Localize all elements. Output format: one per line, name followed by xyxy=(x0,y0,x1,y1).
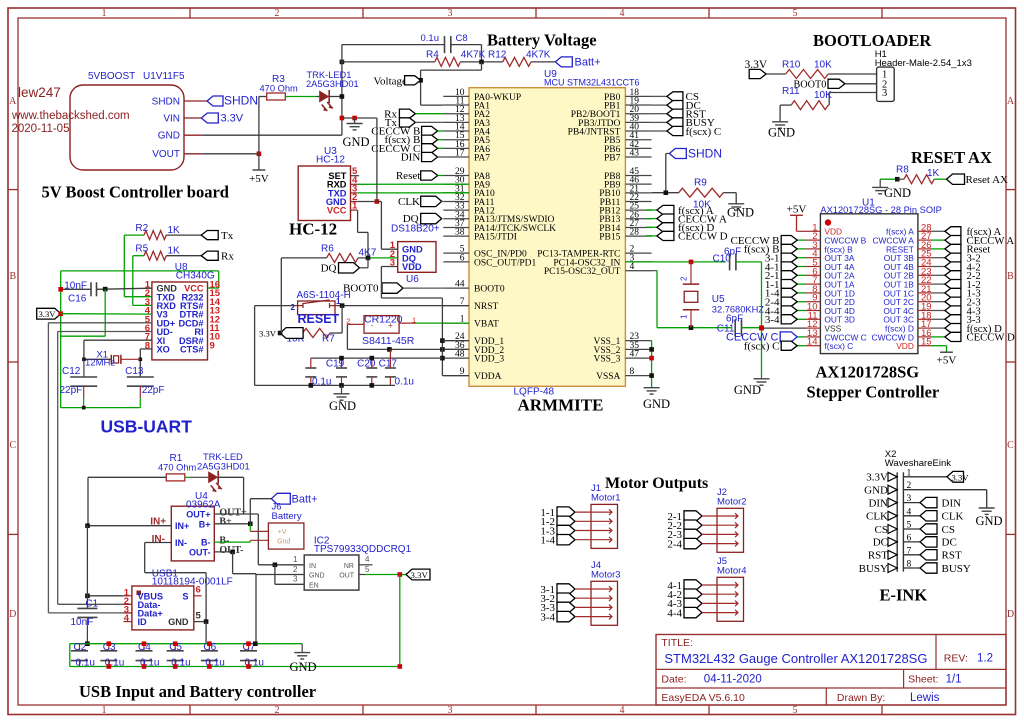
svg-text:C2: C2 xyxy=(74,642,87,653)
svg-text:VBAT: VBAT xyxy=(474,320,499,330)
svg-text:Rx: Rx xyxy=(221,251,234,263)
svg-text:R4: R4 xyxy=(426,50,439,61)
svg-text:BOOTLOADER: BOOTLOADER xyxy=(813,31,932,50)
svg-text:3.3V: 3.3V xyxy=(411,570,429,580)
svg-text:Motor2: Motor2 xyxy=(717,496,747,507)
wire 3-3 to J4 xyxy=(575,606,605,608)
svg-text:5VBOOST: 5VBOOST xyxy=(88,71,135,82)
power flag 3.3V at IC2 xyxy=(406,569,430,580)
junction caps top xyxy=(339,356,344,361)
wire gnd drop xyxy=(104,289,106,336)
svg-text:4: 4 xyxy=(365,555,370,564)
svg-text:RST: RST xyxy=(942,550,962,562)
wire XO to crystal xyxy=(140,348,152,350)
svg-text:1.2: 1.2 xyxy=(977,653,993,665)
net flag CLK eink xyxy=(903,515,920,517)
junction DQ node xyxy=(366,256,371,261)
junction R8 xyxy=(895,177,900,182)
wire PC15 to crystal bottom xyxy=(625,270,657,272)
wire Batt+ riser xyxy=(249,499,251,524)
svg-text:Date:: Date: xyxy=(661,673,686,685)
wire 2-3 to J2 xyxy=(702,533,731,535)
svg-text:lew247: lew247 xyxy=(18,85,61,100)
net flag 3-2 at U1 right xyxy=(932,257,945,259)
junction VBUS xyxy=(85,594,90,599)
wire caps bottom rail xyxy=(70,666,400,668)
net flag 1-1 at U1 xyxy=(797,283,806,285)
svg-text:0.1u: 0.1u xyxy=(395,376,414,387)
wire 2-1 to J2 xyxy=(702,515,731,517)
wire HC-12 VCC xyxy=(351,209,358,211)
junction rail misc xyxy=(253,641,258,646)
capacitor C15 0.1u xyxy=(305,367,316,369)
svg-text:IN+: IN+ xyxy=(175,521,189,531)
capacitor C8 0.1u xyxy=(444,36,446,53)
svg-text:CLK: CLK xyxy=(866,511,888,523)
ground symbol mid caps xyxy=(341,385,343,393)
svg-text:0.1u: 0.1u xyxy=(76,657,95,668)
wire battery divider rail xyxy=(342,61,435,63)
pin stub HC-12 SET xyxy=(351,175,360,177)
wire R6 right to DQ pin xyxy=(358,257,368,259)
svg-text:RESET AX: RESET AX xyxy=(911,148,992,167)
svg-text:BUSY: BUSY xyxy=(942,563,971,575)
svg-text:3-4: 3-4 xyxy=(540,611,555,623)
svg-text:470 Ohm: 470 Ohm xyxy=(158,463,196,473)
net flag Batt+ at J6 xyxy=(271,493,290,504)
svg-text:R5: R5 xyxy=(135,244,148,255)
svg-text:CECCW D: CECCW D xyxy=(967,332,1015,344)
junction HC-12 GND xyxy=(375,199,380,204)
resistor R6 4K7 xyxy=(327,253,359,262)
svg-text:VIN: VIN xyxy=(163,113,180,124)
svg-text:4: 4 xyxy=(124,613,130,624)
svg-text:Motor1: Motor1 xyxy=(591,492,621,503)
junction R7 3.3V xyxy=(278,331,283,336)
svg-text:4K7K: 4K7K xyxy=(526,50,551,61)
power flag 3.3V eink xyxy=(947,471,964,482)
pin stub VIN xyxy=(184,117,201,119)
ground symbol reset ax xyxy=(872,186,888,188)
svg-text:5: 5 xyxy=(793,705,798,716)
svg-text:DIN: DIN xyxy=(401,152,421,164)
resistor R11 10K xyxy=(791,101,828,110)
wire 1-4 to J1 xyxy=(575,539,605,541)
wire R4 to junction xyxy=(460,61,502,63)
wire 1-2 to J1 xyxy=(575,520,605,522)
wire VSS rail xyxy=(651,341,653,388)
svg-text:C16: C16 xyxy=(68,294,87,305)
svg-text:DS18B20+: DS18B20+ xyxy=(391,224,440,235)
junction LED-GND vertical top xyxy=(340,60,345,65)
wire caps top rail xyxy=(70,643,302,645)
svg-text:Tx: Tx xyxy=(221,230,234,242)
svg-text:470 Ohm: 470 Ohm xyxy=(260,84,298,94)
net flag 4-2 at U1 right xyxy=(932,266,945,268)
svg-text:4K7K: 4K7K xyxy=(461,50,486,61)
svg-text:10K: 10K xyxy=(814,60,832,71)
wire VDD_1 branch xyxy=(442,340,469,342)
wire DS18B20 VDD xyxy=(381,266,397,268)
svg-text:Lewis: Lewis xyxy=(910,692,940,704)
crystal U5 32.7680KHZ xyxy=(690,262,692,284)
net flag 2-3 at U1 right xyxy=(932,301,945,303)
capacitor C3 0.1u xyxy=(108,644,110,651)
svg-text:NRST: NRST xyxy=(474,302,498,312)
svg-text:1K: 1K xyxy=(168,225,181,236)
junction VDD_2 rail xyxy=(387,347,392,352)
svg-text:R8: R8 xyxy=(896,165,909,176)
svg-text:WaveshareEink: WaveshareEink xyxy=(885,458,951,469)
net flag Tx at R2 xyxy=(201,231,218,240)
svg-text:REV:: REV: xyxy=(944,653,968,665)
svg-text:1K: 1K xyxy=(927,168,940,179)
net flag Reset at U1 right xyxy=(932,248,945,250)
net flag 3-1 at U1 xyxy=(797,257,806,259)
junction caps ground xyxy=(309,383,314,388)
svg-text:48: 48 xyxy=(455,350,465,360)
svg-text:DIN: DIN xyxy=(942,497,962,509)
net flag CS at MCU xyxy=(652,95,667,97)
net flag SHDN xyxy=(207,96,223,106)
svg-text:VDD: VDD xyxy=(896,341,914,351)
svg-text:SHDN: SHDN xyxy=(688,146,722,160)
svg-text:+: + xyxy=(388,321,393,330)
svg-text:CS: CS xyxy=(942,524,955,536)
resistor R2 1K xyxy=(144,231,166,240)
svg-text:U5: U5 xyxy=(712,294,725,305)
power symbol +5V at U1 pin15 xyxy=(940,351,953,353)
svg-text:C13: C13 xyxy=(125,366,144,377)
svg-text:5: 5 xyxy=(793,8,798,19)
wire U1 pin15 VDD to +5V xyxy=(932,345,947,347)
wire VOUT to +5V xyxy=(184,153,201,155)
svg-text:CTS#: CTS# xyxy=(180,345,204,355)
wire +5V riser xyxy=(258,97,260,171)
svg-text:VDD: VDD xyxy=(402,262,422,272)
svg-text:B: B xyxy=(1007,271,1014,282)
svg-text:5: 5 xyxy=(196,611,202,622)
svg-text:Battery: Battery xyxy=(272,511,302,522)
svg-text:OUT: OUT xyxy=(339,573,355,580)
wire SHDN to PB10 xyxy=(666,153,670,155)
wire 4-1 to J5 xyxy=(702,584,731,586)
svg-text:GND: GND xyxy=(329,399,356,413)
wire caps rail left xyxy=(69,644,71,667)
ground symbol caps rail xyxy=(301,644,303,653)
wire R11 left to GND xyxy=(780,104,791,106)
wire U1 VSS to crystal ground xyxy=(762,327,807,329)
wire 4-3 to J5 xyxy=(702,602,731,604)
junction CH340 gnd node xyxy=(103,287,108,292)
svg-text:-: - xyxy=(371,321,374,330)
pin stub IC2 NR xyxy=(359,564,373,566)
svg-text:CECCW D: CECCW D xyxy=(678,231,728,243)
wire GND drop to DS18B20 xyxy=(376,118,378,202)
svg-text:6pF: 6pF xyxy=(724,247,741,258)
wire 3.3V to R10 xyxy=(766,73,786,75)
svg-text:VDD_3: VDD_3 xyxy=(474,355,504,365)
junction LED node xyxy=(340,94,345,99)
wire R1 left xyxy=(88,476,166,478)
wire R5 to Rx flag xyxy=(166,255,201,257)
wire IN- to ground loop xyxy=(144,543,146,573)
net flag CECCW A at U1 right xyxy=(932,239,945,241)
capacitor C7 0.1u xyxy=(248,644,250,651)
svg-text:+5V: +5V xyxy=(249,173,269,185)
wire R2 to Tx flag xyxy=(166,234,201,236)
wire LED to OUT+ xyxy=(218,476,243,478)
wire OUT- to ground rail xyxy=(232,552,234,574)
wire R2 to TXD xyxy=(124,234,144,236)
wire 2-2 to J2 xyxy=(702,524,731,526)
resistor R7 10K xyxy=(289,329,330,338)
U1 left pins xyxy=(806,222,867,351)
svg-text:SHDN: SHDN xyxy=(224,94,258,108)
svg-text:DC: DC xyxy=(942,537,957,549)
svg-text:+5V: +5V xyxy=(787,204,807,216)
pin stub SHDN xyxy=(184,100,207,102)
wire 1-1 to J1 xyxy=(575,511,605,513)
svg-text:OSC_OUT/PD1: OSC_OUT/PD1 xyxy=(474,258,537,268)
svg-text:2: 2 xyxy=(291,303,296,312)
wire Rx to PA2 xyxy=(415,113,443,115)
wire R9 to GND xyxy=(723,192,736,194)
svg-text:EasyEDA V5.6.10: EasyEDA V5.6.10 xyxy=(661,692,745,704)
svg-text:A: A xyxy=(9,96,17,107)
ground symbol VSS xyxy=(644,387,660,389)
wire reset pullup riser xyxy=(341,306,343,333)
net flag 3-3 at U1 right xyxy=(932,318,945,320)
svg-text:1: 1 xyxy=(102,8,107,19)
svg-text:B-: B- xyxy=(201,538,211,548)
svg-text:3.3V: 3.3V xyxy=(39,309,57,319)
svg-text:ID: ID xyxy=(138,617,148,627)
svg-text:OUT-: OUT- xyxy=(189,547,211,557)
capacitor C4 0.1u xyxy=(143,644,145,651)
svg-text:3: 3 xyxy=(448,705,453,716)
MCU U9 STM32L431CCT6 body xyxy=(469,88,625,387)
wire reset ax gnd xyxy=(880,178,897,180)
wire R5 to RXD xyxy=(133,255,144,257)
svg-text:Motor4: Motor4 xyxy=(717,565,747,576)
IC U1 AX1201728SG body xyxy=(820,214,918,354)
wire crystal ground rail xyxy=(61,407,141,409)
svg-text:2: 2 xyxy=(275,8,280,19)
svg-text:Battery Voltage: Battery Voltage xyxy=(487,31,597,50)
svg-text:4-4: 4-4 xyxy=(667,607,682,619)
net flag CS eink xyxy=(903,528,920,530)
svg-text:6: 6 xyxy=(196,585,201,596)
svg-text:6: 6 xyxy=(460,253,465,263)
svg-text:VOUT: VOUT xyxy=(152,149,180,160)
svg-text:B+: B+ xyxy=(219,516,232,527)
junction IC2 IN EN xyxy=(273,563,278,568)
junction GND symbol node xyxy=(352,116,357,121)
wire 4-4 to J5 xyxy=(702,612,731,614)
svg-text:28: 28 xyxy=(630,228,640,238)
net flag f(scx) C at U1 xyxy=(797,345,806,347)
resistor R8 1K xyxy=(897,178,904,180)
svg-text:PB7: PB7 xyxy=(604,153,621,163)
svg-text:R9: R9 xyxy=(694,178,707,189)
junction GND node xyxy=(340,116,345,121)
net flag CECCW B at U1 xyxy=(797,239,806,241)
ground symbol at R9 xyxy=(728,203,744,205)
net flag RST eink xyxy=(903,554,920,556)
svg-text:C: C xyxy=(1007,440,1014,451)
net flag Rx at R5 xyxy=(201,251,218,260)
wire reset switch pin2 to ground rail xyxy=(255,305,295,307)
wire 3-2 to J4 xyxy=(575,597,605,599)
svg-text:5V Boost Controller board: 5V Boost Controller board xyxy=(42,183,229,202)
svg-text:R2: R2 xyxy=(135,223,148,234)
junction c12 gnd xyxy=(82,406,86,410)
svg-text:4: 4 xyxy=(620,8,625,19)
svg-text:GND: GND xyxy=(168,617,189,627)
junction VDD_1 xyxy=(440,338,445,343)
wire VBUS riser xyxy=(86,526,88,596)
net flag 3.3V on VIN xyxy=(201,113,218,123)
junction USB gnd xyxy=(204,619,209,624)
wire 2-4 to J2 xyxy=(702,543,731,545)
wire R3 to LED xyxy=(285,96,316,98)
net flag 1-2 at U1 right xyxy=(932,283,945,285)
net flag BUSY at MCU xyxy=(652,121,667,123)
svg-text:PC15-OSC32_OUT: PC15-OSC32_OUT xyxy=(544,267,621,277)
junction XO crystal xyxy=(139,358,143,362)
svg-text:RESET: RESET xyxy=(298,312,340,326)
svg-text:DQ: DQ xyxy=(321,262,337,274)
net flag CECCW D at U1 right xyxy=(932,336,945,338)
wire 3.3V rail top xyxy=(61,270,219,272)
svg-text:2A5G3HD01: 2A5G3HD01 xyxy=(197,462,250,472)
svg-text:CS: CS xyxy=(875,524,888,536)
wire C16 right to CH340 GND xyxy=(97,288,152,289)
wire GND vertical xyxy=(341,45,343,136)
svg-text:U6: U6 xyxy=(406,274,419,285)
svg-text:22pF: 22pF xyxy=(142,385,165,396)
svg-text:Drawn By:: Drawn By: xyxy=(837,692,885,704)
resistor R9 10K xyxy=(679,188,724,197)
svg-text:R10: R10 xyxy=(782,60,801,71)
svg-text:PA15/JTDI: PA15/JTDI xyxy=(474,233,517,243)
svg-text:B: B xyxy=(9,271,16,282)
svg-text:3.3V: 3.3V xyxy=(866,472,888,484)
svg-text:C8: C8 xyxy=(456,33,468,44)
wire XI down to C12 xyxy=(83,359,85,377)
svg-text:B+: B+ xyxy=(199,519,211,529)
capacitor C2 0.1u xyxy=(79,644,81,651)
junction 3.3V V3 xyxy=(58,311,63,316)
svg-text:1: 1 xyxy=(680,314,689,319)
wire UD+ to USB xyxy=(48,322,151,324)
wire R10 to header pin1 xyxy=(828,73,876,75)
wire HC-12 GND xyxy=(351,201,358,203)
svg-text:0.1u: 0.1u xyxy=(421,33,440,44)
svg-text:f(scx) C: f(scx) C xyxy=(686,126,722,138)
svg-text:CLK: CLK xyxy=(398,196,420,208)
svg-text:MCU STM32L431CCT6: MCU STM32L431CCT6 xyxy=(544,78,640,88)
ground symbol bootloader xyxy=(772,121,788,123)
wire B+ to J6 xyxy=(249,524,251,532)
svg-text:GND: GND xyxy=(643,397,670,411)
junction NRST node xyxy=(340,303,345,308)
resistor R3 470 Ohm xyxy=(259,96,267,98)
svg-text:D: D xyxy=(1007,609,1014,620)
svg-text:USB Input and Battery controll: USB Input and Battery controller xyxy=(79,682,316,701)
wire 3-4 to J4 xyxy=(575,616,605,618)
svg-text:PB15: PB15 xyxy=(599,233,620,243)
net flag 3-4 at U1 xyxy=(797,318,806,320)
svg-text:47: 47 xyxy=(630,350,640,360)
junction VSS3 xyxy=(649,356,654,361)
svg-text:14: 14 xyxy=(807,337,818,348)
svg-text:3-4: 3-4 xyxy=(765,314,780,326)
wire R7 right xyxy=(330,332,342,334)
junction battery sense node xyxy=(479,60,484,65)
wire 3.3V down to bottom rail xyxy=(399,575,401,667)
svg-text:2A5G3HD01: 2A5G3HD01 xyxy=(306,79,359,89)
svg-text:DC: DC xyxy=(873,537,888,549)
svg-text:8: 8 xyxy=(630,367,635,377)
net flag 2-4 at U1 xyxy=(797,301,806,303)
ground symbol crystal xyxy=(754,378,770,380)
svg-text:2: 2 xyxy=(275,705,280,716)
wire 3-1 to J4 xyxy=(575,588,605,590)
svg-text:DIN: DIN xyxy=(868,497,888,509)
wire R12 to Batt+ xyxy=(531,61,555,63)
wire IC2 GND xyxy=(256,574,304,576)
svg-text:USB-UART: USB-UART xyxy=(101,417,193,437)
svg-text:+5V: +5V xyxy=(937,355,957,367)
svg-text:Sheet:: Sheet: xyxy=(908,673,938,685)
svg-text:1-4: 1-4 xyxy=(540,535,555,547)
wire R11 right to header pin3 xyxy=(827,104,830,106)
svg-text:PA7: PA7 xyxy=(474,153,490,163)
wire V3 xyxy=(61,313,152,315)
net flag 4-3 at U1 right xyxy=(932,310,945,312)
wire 1-3 to J1 xyxy=(575,530,605,532)
svg-text:f(scx) C: f(scx) C xyxy=(824,341,853,351)
svg-text:TRK-LED: TRK-LED xyxy=(203,452,243,462)
junction 3.3V out xyxy=(398,572,403,577)
svg-text:IN: IN xyxy=(309,563,316,570)
net flag DC eink xyxy=(903,541,920,543)
net flag Reset AX xyxy=(947,174,965,184)
svg-text:U1V11F5: U1V11F5 xyxy=(143,71,185,82)
junction VDD_3 xyxy=(440,356,445,361)
junction B+ Batt+ xyxy=(248,522,253,527)
wire GND from 5VBOOST xyxy=(184,134,201,136)
wire R6 left to 3.3V riser xyxy=(281,257,326,259)
wire 4-2 to J5 xyxy=(702,593,731,595)
net flag 2-2 at U1 right xyxy=(932,274,945,276)
svg-text:3.3V: 3.3V xyxy=(952,472,970,482)
title block frame xyxy=(656,635,1006,706)
net flag 2-1 at U1 xyxy=(797,274,806,276)
svg-text:BOOT0: BOOT0 xyxy=(474,285,505,295)
svg-text:C: C xyxy=(9,440,16,451)
resistor R4 4K7K xyxy=(435,57,461,66)
junction crystal bottom xyxy=(689,325,694,330)
svg-text:GND: GND xyxy=(727,206,754,220)
wire Tx to PA3 xyxy=(415,121,443,123)
junction VSSA xyxy=(649,373,654,378)
svg-text:2: 2 xyxy=(293,565,298,574)
svg-text:44: 44 xyxy=(455,280,465,290)
wire VDDA branch xyxy=(442,375,469,377)
